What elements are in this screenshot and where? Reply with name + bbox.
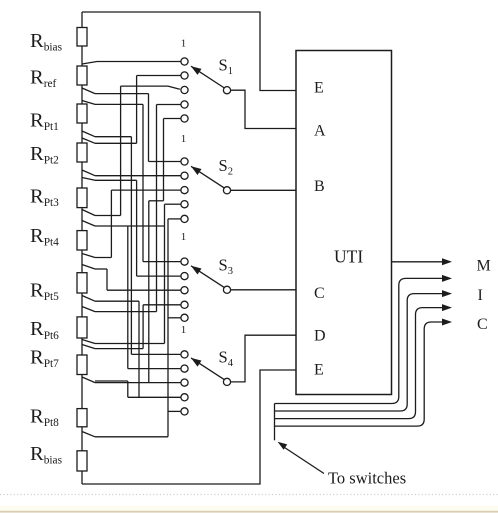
resistor Rbias (77, 28, 87, 47)
switch S1 pole circle (223, 87, 230, 94)
label RPt5 (30, 280, 59, 304)
label 1 (first contact of S1) (181, 37, 187, 49)
wire top rail to UTI pin E (top) (82, 12, 296, 91)
label To switches (328, 469, 406, 488)
pin label C (314, 285, 325, 302)
wire feedback wrap arrow 4 (275, 304, 453, 419)
label RPt4 (30, 225, 59, 249)
wire feedback wrap arrow 5 (275, 319, 453, 427)
label Rref (30, 67, 57, 91)
wire node n6 to S2 contact 3 (82, 190, 181, 257)
label 1 (first contact of S2) (181, 133, 187, 145)
svg-text:1: 1 (181, 231, 187, 243)
wire node n2 to S2 contact 1 (82, 88, 181, 162)
wire node n8 to S2 contact 4 (82, 204, 181, 343)
svg-text:M: M (477, 258, 491, 275)
resistor RPt3 (77, 188, 87, 208)
switch S3 contact circles (181, 258, 188, 321)
resistor RPt8 (77, 409, 87, 427)
resistor RPt4 (77, 231, 87, 250)
label C (477, 316, 488, 333)
label S2 (219, 156, 233, 178)
svg-text:1: 1 (181, 37, 187, 49)
label UTI (334, 246, 363, 266)
wire S4 pole to UTI pin D (231, 335, 296, 382)
wire node n4 to S3 contact 2 (82, 178, 181, 277)
resistor RPt5 (77, 273, 87, 293)
svg-text:D: D (314, 328, 326, 345)
wire S2 pole to UTI pin B (231, 189, 296, 191)
label RPt7 (30, 346, 59, 370)
wire node n10 to S2 contact 5 (82, 219, 181, 437)
resistor RPt7 (77, 355, 87, 375)
wire node n5 to S4 contact 2 (82, 221, 181, 369)
switch S2 wiper arrow (191, 166, 224, 188)
wire S4 contact 5 stub to n10 riser (168, 410, 181, 412)
label 1 (first contact of S4) (181, 324, 187, 336)
wire resistor-chain vertical bus (81, 12, 83, 484)
label RPt6 (30, 318, 59, 342)
wire S1 contact 4 riser to node n7 (82, 105, 181, 312)
node page footer band (0, 506, 498, 513)
pin label A (314, 123, 326, 140)
switch S2 contact circles (181, 158, 188, 223)
resistor RPt1 (77, 104, 87, 123)
wire node n6 to S3 contact 3 (82, 265, 181, 291)
svg-text:A: A (314, 123, 326, 140)
label S4 (219, 347, 234, 369)
wire S3 contact 5 stub to n10 riser (168, 317, 181, 319)
label To switches arrow (278, 442, 324, 474)
svg-text:I: I (478, 287, 483, 304)
switch S3 pole circle (223, 286, 230, 293)
wire node n9 jog to S4 contact 4 (95, 381, 181, 397)
wire node n3 to S4 contact 1 (82, 131, 181, 354)
node page divider dotted (0, 494, 498, 496)
label S3 (219, 255, 233, 277)
switch S1 wiper arrow (191, 66, 224, 88)
wire S1 contact 5 jog riser to node n9 (149, 119, 181, 383)
wire node n8 to S3 contact 4 (82, 305, 181, 349)
wire S1 pole to UTI pin A (231, 90, 296, 128)
wire switch-control bundle bracket (274, 404, 276, 441)
svg-text:To switches: To switches (328, 469, 406, 488)
switch S1 contact circles (181, 58, 188, 122)
wire node n4 to S2 contact 2 (82, 170, 181, 176)
resistor Rref (77, 66, 87, 85)
svg-text:UTI: UTI (334, 246, 363, 266)
wire bottom rail to UTI pin E (bottom) (82, 370, 296, 484)
svg-text:C: C (477, 316, 488, 333)
svg-text:E: E (314, 80, 324, 97)
label RPt2 (30, 143, 59, 167)
label Rbias (30, 443, 63, 467)
svg-text:1: 1 (181, 133, 187, 145)
resistor RPt6 (77, 317, 87, 338)
resistor RPt2 (77, 143, 87, 162)
label RPt1 (30, 109, 59, 133)
switch S4 pole circle (223, 378, 230, 385)
label I (478, 287, 483, 304)
wire feedback wrap arrow 3 (275, 290, 453, 411)
wire S1 contact 2 riser to node n3 (82, 76, 181, 144)
pin label D (314, 328, 326, 345)
svg-text:C: C (314, 285, 325, 302)
wire node n1 to S1 contact 1 (82, 62, 181, 65)
pin label E (314, 362, 324, 379)
label RPt8 (30, 406, 59, 430)
switch S2 pole circle (223, 187, 230, 194)
wire S1 contact 3 riser to node n5 (82, 86, 180, 215)
svg-text:1: 1 (181, 324, 187, 336)
wire S3 pole to UTI pin C (231, 289, 296, 291)
switch S4 contact circles (181, 351, 188, 415)
wire node n2 to S3 contact 1 (82, 101, 181, 262)
op-amp U1 (UTI interface box) (296, 51, 392, 395)
svg-text:E: E (314, 362, 324, 379)
label Rbias (30, 30, 63, 54)
switch S4 wiper arrow (191, 358, 224, 380)
label RPt3 (30, 185, 59, 209)
resistor Rbias (77, 451, 87, 471)
label S1 (219, 56, 233, 78)
label 1 (first contact of S3) (181, 231, 187, 243)
switch S3 wiper arrow (191, 266, 224, 288)
wire node n9 to S4 contact 3 (82, 377, 181, 383)
pin label E (314, 80, 324, 97)
label M (477, 258, 491, 275)
wire feedback wrap arrow 2 (275, 275, 453, 404)
wire UTI output M arrow (392, 258, 452, 265)
pin label B (314, 178, 325, 195)
svg-text:B: B (314, 178, 325, 195)
wire node n7 riser x139 (82, 296, 139, 398)
